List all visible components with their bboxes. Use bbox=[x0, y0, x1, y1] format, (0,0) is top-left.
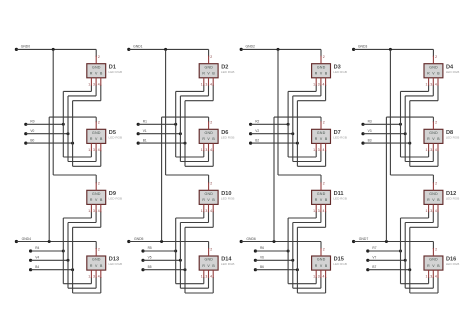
label D9 reference and value bbox=[109, 191, 123, 201]
D11 pin 3 leg and number bbox=[318, 204, 321, 213]
D7 pin 1 leg and number bbox=[313, 143, 316, 152]
svg-text:GND: GND bbox=[429, 131, 438, 135]
wire V1 horizontal bbox=[138, 133, 180, 135]
wire V3 bus D4 pin to D8 pin bbox=[405, 85, 433, 162]
D2 pin 2 (GND) leg and number bbox=[209, 55, 213, 64]
svg-text:2: 2 bbox=[98, 182, 100, 186]
svg-text:4: 4 bbox=[210, 148, 212, 152]
label D8 reference and value bbox=[446, 130, 460, 140]
D8 pin 2 (GND) leg and number bbox=[433, 121, 437, 130]
D4 pin 4 leg and number bbox=[435, 78, 438, 87]
node R7 bbox=[366, 246, 377, 252]
wire B2 horizontal bbox=[251, 142, 298, 144]
D14 pin 3 leg and number bbox=[205, 270, 208, 279]
svg-text:2: 2 bbox=[435, 121, 437, 125]
svg-text:3: 3 bbox=[430, 82, 432, 86]
LED RGB D2 bbox=[199, 64, 218, 78]
svg-text:GND0: GND0 bbox=[21, 44, 31, 48]
svg-text:1: 1 bbox=[201, 148, 203, 152]
svg-text:1: 1 bbox=[426, 148, 428, 152]
junction B7 bus bbox=[408, 268, 411, 271]
D9 pin 2 (GND) leg and number bbox=[96, 182, 100, 191]
node V3 bbox=[361, 129, 371, 135]
svg-text:LED RGB: LED RGB bbox=[221, 70, 235, 74]
junction B2 bus bbox=[296, 142, 299, 145]
D16 pin 4 leg and number bbox=[435, 270, 438, 279]
junction R6 bus bbox=[287, 250, 290, 253]
svg-text:1: 1 bbox=[88, 148, 90, 152]
svg-text:2: 2 bbox=[98, 247, 100, 251]
D7 pin 3 leg and number bbox=[318, 143, 321, 152]
wire R2 bus D3 pin to D7 pin bbox=[288, 85, 316, 157]
wire V6 horizontal bbox=[255, 259, 292, 261]
svg-text:GND: GND bbox=[204, 258, 213, 262]
wire B7 bus D12 pin to D16 pin bbox=[410, 211, 438, 293]
svg-text:2: 2 bbox=[323, 247, 325, 251]
svg-text:4: 4 bbox=[435, 148, 437, 152]
LED RGB D9 bbox=[87, 190, 106, 204]
svg-text:GND3: GND3 bbox=[358, 44, 368, 48]
wire V4 bus D9 pin to D13 pin bbox=[68, 211, 96, 288]
LED RGB D12 bbox=[424, 190, 443, 204]
node V6 bbox=[254, 256, 264, 262]
svg-text:1: 1 bbox=[313, 209, 315, 213]
D3 pin 1 leg and number bbox=[313, 78, 316, 87]
junction GND6 branch bbox=[273, 240, 276, 243]
svg-text:4: 4 bbox=[210, 82, 212, 86]
junction GND0 branch bbox=[52, 48, 55, 51]
wire R4 bus D9 pin to D13 pin bbox=[63, 211, 91, 283]
svg-text:R4: R4 bbox=[35, 246, 39, 250]
node V5 bbox=[141, 256, 151, 262]
svg-text:GND: GND bbox=[317, 65, 326, 69]
D8 pin 3 leg and number bbox=[430, 143, 433, 152]
D11 pin 2 (GND) leg and number bbox=[321, 182, 325, 191]
svg-text:B0: B0 bbox=[30, 138, 34, 142]
D6 pin 4 leg and number bbox=[210, 143, 213, 152]
D4 pin 1 leg and number bbox=[426, 78, 429, 87]
junction GND7 branch bbox=[385, 240, 388, 243]
svg-text:LED RGB: LED RGB bbox=[446, 70, 460, 74]
wire GND1 down-link to D10 pin2 bbox=[166, 49, 209, 183]
D10 pin 2 (GND) leg and number bbox=[209, 182, 213, 191]
svg-text:2: 2 bbox=[435, 182, 437, 186]
svg-text:1: 1 bbox=[313, 82, 315, 86]
svg-text:2: 2 bbox=[98, 121, 100, 125]
junction V4 bus bbox=[67, 259, 70, 262]
LED RGB D16 bbox=[424, 256, 443, 270]
node R3 bbox=[361, 120, 372, 126]
wire V5 bus D10 pin to D14 pin bbox=[180, 211, 208, 288]
D14 pin 4 leg and number bbox=[210, 270, 213, 279]
D2 pin 4 leg and number bbox=[210, 78, 213, 87]
junction R1 bus bbox=[174, 123, 177, 126]
label D3 reference and value bbox=[333, 64, 347, 74]
D3 pin 4 leg and number bbox=[323, 78, 326, 87]
svg-text:LED RGB: LED RGB bbox=[109, 197, 123, 201]
label D1 reference and value bbox=[109, 64, 123, 74]
wire V0 bus D1 pin to D5 pin bbox=[68, 85, 96, 162]
LED RGB D4 bbox=[424, 64, 443, 78]
D12 pin 1 leg and number bbox=[426, 204, 429, 213]
svg-text:3: 3 bbox=[205, 209, 207, 213]
junction B1 bus bbox=[184, 142, 187, 145]
wire GND7 up-link to D8 pin2 bbox=[386, 117, 433, 241]
svg-text:3: 3 bbox=[318, 82, 320, 86]
D1 pin 3 leg and number bbox=[93, 78, 96, 87]
junction V1 bus bbox=[179, 132, 182, 135]
svg-text:GND1: GND1 bbox=[133, 44, 143, 48]
svg-text:V2: V2 bbox=[255, 129, 259, 133]
wire GND4 horizontal to D13 pin2 bbox=[16, 242, 96, 250]
node R4 bbox=[29, 246, 40, 252]
svg-text:B1: B1 bbox=[143, 138, 147, 142]
node GND2 bbox=[240, 44, 255, 51]
svg-text:2: 2 bbox=[210, 121, 212, 125]
D1 pin 4 leg and number bbox=[98, 78, 101, 87]
node V7 bbox=[366, 256, 376, 262]
svg-text:R7: R7 bbox=[372, 246, 376, 250]
junction GND3 branch bbox=[389, 48, 392, 51]
D16 pin 1 leg and number bbox=[426, 270, 429, 279]
svg-text:LED RGB: LED RGB bbox=[333, 70, 347, 74]
svg-text:1: 1 bbox=[426, 275, 428, 279]
svg-text:3: 3 bbox=[318, 209, 320, 213]
wire R0 bus D1 pin to D5 pin bbox=[63, 85, 91, 157]
svg-text:LED RGB: LED RGB bbox=[333, 197, 347, 201]
D14 pin 2 (GND) leg and number bbox=[209, 247, 213, 256]
svg-text:LED RGB: LED RGB bbox=[333, 262, 347, 266]
wire B4 bus D9 pin to D13 pin bbox=[73, 211, 101, 293]
D10 pin 3 leg and number bbox=[205, 204, 208, 213]
D4 pin 3 leg and number bbox=[430, 78, 433, 87]
wire B7 horizontal bbox=[368, 269, 410, 271]
wire GND6 horizontal to D15 pin2 bbox=[241, 242, 321, 250]
junction R0 bus bbox=[62, 123, 65, 126]
LED RGB D11 bbox=[312, 190, 331, 204]
D8 pin 4 leg and number bbox=[435, 143, 438, 152]
svg-text:4: 4 bbox=[435, 209, 437, 213]
label D12 reference and value bbox=[446, 191, 460, 201]
svg-text:LED RGB: LED RGB bbox=[109, 262, 123, 266]
svg-text:GND: GND bbox=[92, 65, 101, 69]
wire B3 bus D4 pin to D8 pin bbox=[410, 85, 438, 167]
svg-text:1: 1 bbox=[313, 148, 315, 152]
node V0 bbox=[24, 129, 34, 135]
junction V0 bus bbox=[67, 132, 70, 135]
svg-text:1: 1 bbox=[426, 82, 428, 86]
svg-text:V1: V1 bbox=[143, 129, 147, 133]
D5 pin 2 (GND) leg and number bbox=[96, 121, 100, 130]
wire GND2 horizontal to D3 pin2 bbox=[241, 49, 321, 56]
svg-text:4: 4 bbox=[98, 148, 100, 152]
D6 pin 1 leg and number bbox=[201, 143, 204, 152]
svg-text:GND: GND bbox=[429, 65, 438, 69]
node B3 bbox=[361, 138, 371, 144]
svg-text:2: 2 bbox=[435, 247, 437, 251]
wire B1 bus D2 pin to D6 pin bbox=[185, 85, 213, 167]
svg-text:R2: R2 bbox=[255, 120, 259, 124]
wire R7 bus D12 pin to D16 pin bbox=[401, 211, 429, 283]
LED RGB D5 bbox=[87, 129, 106, 143]
svg-text:LED RGB: LED RGB bbox=[446, 262, 460, 266]
D13 pin 1 leg and number bbox=[88, 270, 91, 279]
label D11 reference and value bbox=[333, 191, 347, 201]
node B0 bbox=[24, 138, 34, 144]
svg-text:GND2: GND2 bbox=[246, 44, 256, 48]
svg-text:1: 1 bbox=[201, 209, 203, 213]
junction V6 bus bbox=[291, 259, 294, 262]
svg-text:R6: R6 bbox=[260, 246, 264, 250]
wire R1 horizontal bbox=[138, 123, 176, 125]
wire R4 horizontal bbox=[31, 250, 64, 252]
wire R3 horizontal bbox=[363, 123, 401, 125]
wire R2 horizontal bbox=[251, 123, 289, 125]
wire B1 horizontal bbox=[138, 142, 185, 144]
node B1 bbox=[137, 138, 147, 144]
svg-text:GND5: GND5 bbox=[134, 237, 144, 241]
node R1 bbox=[137, 120, 148, 126]
label D15 reference and value bbox=[333, 257, 347, 267]
svg-text:R3: R3 bbox=[368, 120, 372, 124]
svg-text:4: 4 bbox=[98, 275, 100, 279]
LED RGB D1 bbox=[87, 64, 106, 78]
svg-text:B3: B3 bbox=[368, 138, 372, 142]
svg-text:LED RGB: LED RGB bbox=[109, 136, 123, 140]
svg-text:LED RGB: LED RGB bbox=[446, 197, 460, 201]
svg-text:4: 4 bbox=[323, 148, 325, 152]
wire GND5 up-link to D6 pin2 bbox=[162, 117, 209, 241]
svg-text:4: 4 bbox=[323, 275, 325, 279]
node GND3 bbox=[352, 44, 367, 51]
svg-text:3: 3 bbox=[430, 275, 432, 279]
wire R1 bus D2 pin to D6 pin bbox=[176, 85, 204, 157]
svg-text:GND: GND bbox=[92, 258, 101, 262]
svg-text:4: 4 bbox=[435, 82, 437, 86]
svg-text:LED RGB: LED RGB bbox=[221, 262, 235, 266]
D15 pin 1 leg and number bbox=[313, 270, 316, 279]
LED RGB D13 bbox=[87, 256, 106, 270]
wire GND0 down-link to D9 pin2 bbox=[53, 49, 96, 183]
D11 pin 1 leg and number bbox=[313, 204, 316, 213]
svg-text:3: 3 bbox=[93, 82, 95, 86]
svg-text:B2: B2 bbox=[255, 138, 259, 142]
D13 pin 2 (GND) leg and number bbox=[96, 247, 100, 256]
svg-text:4: 4 bbox=[210, 275, 212, 279]
D12 pin 2 (GND) leg and number bbox=[433, 182, 437, 191]
wire R6 horizontal bbox=[255, 250, 288, 252]
wire GND6 up-link to D7 pin2 bbox=[274, 117, 321, 241]
D8 pin 1 leg and number bbox=[426, 143, 429, 152]
node B7 bbox=[366, 265, 376, 271]
wire GND3 down-link to D12 pin2 bbox=[390, 49, 433, 183]
junction GND2 branch bbox=[277, 48, 280, 51]
junction R4 bus bbox=[62, 250, 65, 253]
svg-text:1: 1 bbox=[88, 82, 90, 86]
wire GND7 horizontal to D16 pin2 bbox=[354, 242, 434, 250]
D15 pin 3 leg and number bbox=[318, 270, 321, 279]
svg-text:GND: GND bbox=[204, 65, 213, 69]
wire R7 horizontal bbox=[368, 250, 401, 252]
junction R5 bus bbox=[174, 250, 177, 253]
LED RGB D3 bbox=[312, 64, 331, 78]
svg-text:LED RGB: LED RGB bbox=[221, 197, 235, 201]
svg-text:GND7: GND7 bbox=[359, 237, 369, 241]
svg-text:1: 1 bbox=[201, 82, 203, 86]
wire R5 bus D10 pin to D14 pin bbox=[176, 211, 204, 283]
svg-text:4: 4 bbox=[435, 275, 437, 279]
wire B3 horizontal bbox=[363, 142, 410, 144]
wire B4 horizontal bbox=[31, 269, 73, 271]
D6 pin 3 leg and number bbox=[205, 143, 208, 152]
D4 pin 2 (GND) leg and number bbox=[433, 55, 437, 64]
svg-text:GND6: GND6 bbox=[246, 237, 256, 241]
svg-text:2: 2 bbox=[435, 55, 437, 59]
D13 pin 4 leg and number bbox=[98, 270, 101, 279]
wire V7 bus D12 pin to D16 pin bbox=[405, 211, 433, 288]
svg-text:3: 3 bbox=[430, 148, 432, 152]
D16 pin 3 leg and number bbox=[430, 270, 433, 279]
node B4 bbox=[29, 265, 39, 271]
label D4 reference and value bbox=[446, 64, 460, 74]
wire R6 bus D11 pin to D15 pin bbox=[288, 211, 316, 283]
svg-text:1: 1 bbox=[88, 275, 90, 279]
D2 pin 3 leg and number bbox=[205, 78, 208, 87]
svg-text:V6: V6 bbox=[260, 256, 264, 260]
D3 pin 2 (GND) leg and number bbox=[321, 55, 325, 64]
svg-text:R0: R0 bbox=[30, 120, 34, 124]
LED RGB D6 bbox=[199, 129, 218, 143]
junction V7 bus bbox=[404, 259, 407, 262]
wire GND5 horizontal to D14 pin2 bbox=[129, 242, 209, 250]
D10 pin 4 leg and number bbox=[210, 204, 213, 213]
wire B5 bus D10 pin to D14 pin bbox=[185, 211, 213, 293]
D5 pin 3 leg and number bbox=[93, 143, 96, 152]
svg-text:3: 3 bbox=[93, 275, 95, 279]
wire B6 horizontal bbox=[255, 269, 297, 271]
D9 pin 3 leg and number bbox=[93, 204, 96, 213]
D1 pin 1 leg and number bbox=[88, 78, 91, 87]
node R6 bbox=[254, 246, 265, 252]
svg-text:B7: B7 bbox=[372, 265, 376, 269]
svg-text:3: 3 bbox=[93, 148, 95, 152]
label D16 reference and value bbox=[446, 257, 460, 267]
wire V2 bus D3 pin to D7 pin bbox=[293, 85, 321, 162]
junction B6 bus bbox=[296, 268, 299, 271]
LED RGB D10 bbox=[199, 190, 218, 204]
junction R3 bus bbox=[399, 123, 402, 126]
svg-text:1: 1 bbox=[201, 275, 203, 279]
svg-text:1: 1 bbox=[313, 275, 315, 279]
wire B0 bus D1 pin to D5 pin bbox=[73, 85, 101, 167]
node V1 bbox=[137, 129, 147, 135]
svg-text:B4: B4 bbox=[35, 265, 39, 269]
node GND4 bbox=[15, 237, 31, 243]
junction GND1 branch bbox=[164, 48, 167, 51]
junction GND4 branch bbox=[48, 240, 51, 243]
wire V4 horizontal bbox=[31, 259, 68, 261]
svg-text:V5: V5 bbox=[148, 256, 152, 260]
svg-text:GND: GND bbox=[92, 131, 101, 135]
svg-text:V4: V4 bbox=[35, 256, 39, 260]
svg-text:1: 1 bbox=[426, 209, 428, 213]
svg-text:R1: R1 bbox=[143, 120, 147, 124]
svg-text:2: 2 bbox=[210, 247, 212, 251]
svg-text:2: 2 bbox=[323, 121, 325, 125]
svg-text:LED RGB: LED RGB bbox=[221, 136, 235, 140]
label D10 reference and value bbox=[221, 191, 235, 201]
D5 pin 4 leg and number bbox=[98, 143, 101, 152]
LED RGB D15 bbox=[312, 256, 331, 270]
svg-text:GND: GND bbox=[317, 131, 326, 135]
D5 pin 1 leg and number bbox=[88, 143, 91, 152]
wire B2 bus D3 pin to D7 pin bbox=[297, 85, 325, 167]
label D14 reference and value bbox=[221, 257, 235, 267]
D9 pin 4 leg and number bbox=[98, 204, 101, 213]
wire R5 horizontal bbox=[143, 250, 176, 252]
wire B5 horizontal bbox=[143, 269, 185, 271]
junction B3 bus bbox=[408, 142, 411, 145]
junction V3 bus bbox=[404, 132, 407, 135]
svg-text:B5: B5 bbox=[148, 265, 152, 269]
svg-text:LED RGB: LED RGB bbox=[446, 136, 460, 140]
wire GND2 down-link to D11 pin2 bbox=[278, 49, 321, 183]
svg-text:3: 3 bbox=[430, 209, 432, 213]
svg-text:2: 2 bbox=[98, 55, 100, 59]
svg-text:2: 2 bbox=[323, 55, 325, 59]
svg-text:GND: GND bbox=[204, 131, 213, 135]
wire B0 horizontal bbox=[26, 142, 73, 144]
label D2 reference and value bbox=[221, 64, 235, 74]
node GND0 bbox=[15, 44, 30, 51]
svg-text:LED RGB: LED RGB bbox=[333, 136, 347, 140]
svg-text:3: 3 bbox=[93, 209, 95, 213]
node GND6 bbox=[240, 237, 256, 243]
svg-text:GND: GND bbox=[317, 192, 326, 196]
LED RGB D14 bbox=[199, 256, 218, 270]
wire V1 bus D2 pin to D6 pin bbox=[180, 85, 208, 162]
svg-text:V0: V0 bbox=[30, 129, 34, 133]
svg-text:2: 2 bbox=[210, 182, 212, 186]
svg-text:GND: GND bbox=[317, 258, 326, 262]
svg-text:4: 4 bbox=[98, 82, 100, 86]
svg-text:4: 4 bbox=[323, 209, 325, 213]
wire GND1 horizontal to D2 pin2 bbox=[129, 49, 209, 56]
node R0 bbox=[24, 120, 35, 126]
svg-text:3: 3 bbox=[318, 275, 320, 279]
D16 pin 2 (GND) leg and number bbox=[433, 247, 437, 256]
D10 pin 1 leg and number bbox=[201, 204, 204, 213]
junction V5 bus bbox=[179, 259, 182, 262]
wire B6 bus D11 pin to D15 pin bbox=[297, 211, 325, 293]
svg-text:GND4: GND4 bbox=[22, 237, 32, 241]
label D13 reference and value bbox=[109, 257, 123, 267]
svg-text:GND: GND bbox=[204, 192, 213, 196]
svg-text:3: 3 bbox=[205, 275, 207, 279]
svg-text:V3: V3 bbox=[368, 129, 372, 133]
label D6 reference and value bbox=[221, 130, 235, 140]
svg-text:4: 4 bbox=[98, 209, 100, 213]
node B2 bbox=[249, 138, 259, 144]
svg-text:3: 3 bbox=[205, 148, 207, 152]
D7 pin 4 leg and number bbox=[323, 143, 326, 152]
wire R0 horizontal bbox=[26, 123, 64, 125]
D11 pin 4 leg and number bbox=[323, 204, 326, 213]
svg-text:3: 3 bbox=[205, 82, 207, 86]
wire V0 horizontal bbox=[26, 133, 68, 135]
D7 pin 2 (GND) leg and number bbox=[321, 121, 325, 130]
svg-text:B6: B6 bbox=[260, 265, 264, 269]
